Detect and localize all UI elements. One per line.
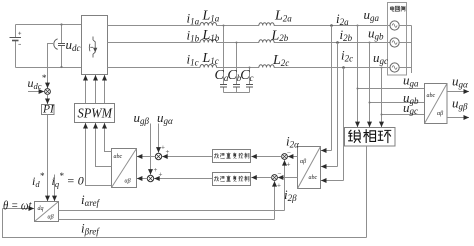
summing junction B (beta feed-forward) <box>147 175 153 181</box>
wire: phase a line <box>108 25 201 27</box>
node: cap on DC- <box>60 66 62 68</box>
svg-text:abc: abc <box>309 175 318 181</box>
svg-text:dq: dq <box>38 206 44 212</box>
controller2 text char 改 <box>214 176 219 181</box>
svg-text:−: − <box>278 170 282 178</box>
svg-text:i2α: i2α <box>286 134 299 150</box>
arrow: ugb into PLL <box>369 103 371 128</box>
wire: ugc sense vertical <box>381 68 383 115</box>
svg-text:L2b: L2b <box>271 28 289 43</box>
inductor L2c <box>259 65 274 68</box>
arrow: junction alpha to repetitive controller 1 <box>251 156 281 158</box>
arrow: i2b into transform <box>321 166 338 168</box>
wire: source c to neutral bus <box>399 67 411 69</box>
svg-text:i1a: i1a <box>187 11 200 27</box>
grid box text char 电 <box>390 6 394 11</box>
AC source phase a <box>390 21 399 30</box>
controller2 text char 制 <box>245 176 250 182</box>
arrow: signal a into SPWM <box>85 123 87 129</box>
battery V1 <box>10 38 22 41</box>
arrow: i2a into transform <box>321 150 332 152</box>
capacitor Ca <box>220 85 227 88</box>
grid box text char 网 <box>395 6 399 11</box>
SPWM block <box>75 104 115 123</box>
diagonal of alpha-beta to abc block <box>112 149 137 188</box>
wire: i2a sense vertical <box>331 26 333 151</box>
wire: SPWM gate line b <box>95 75 97 104</box>
wire: PLL theta output down <box>366 146 368 238</box>
arrow: i2c into transform <box>321 180 344 182</box>
svg-text:udc*: udc* <box>28 73 47 91</box>
svg-text:abc: abc <box>114 154 123 160</box>
wire: ugc sense horizontal to transform <box>382 114 425 116</box>
controller2 text char 复 <box>233 176 236 182</box>
capacitor Cb <box>233 85 240 88</box>
wire: source b to neutral bus <box>399 42 411 44</box>
diagonal of current transform <box>298 147 321 189</box>
svg-text:ugb: ugb <box>368 26 384 42</box>
inverter U1 box <box>82 16 108 75</box>
wire: i2c sense vertical <box>343 68 345 181</box>
arrow: signal c into SPWM <box>104 123 106 129</box>
inductor L1b <box>200 39 217 42</box>
arrow: udc into junction <box>47 82 49 88</box>
inductor L1a <box>200 22 217 25</box>
svg-text:αβ: αβ <box>125 179 131 185</box>
arrow: theta into dq block <box>3 208 35 210</box>
abc to alpha-beta transform (current) box <box>298 147 321 189</box>
svg-text:ugβ: ugβ <box>134 110 150 126</box>
wire: i2b sense vertical <box>337 43 339 167</box>
controller1 text char 控 <box>238 153 243 158</box>
capacitor Cdc <box>58 44 65 46</box>
svg-text:udc: udc <box>66 37 81 53</box>
summing junction beta <box>272 175 278 181</box>
wire: phase c line <box>108 67 201 69</box>
svg-text:θ = ωt: θ = ωt <box>3 199 32 213</box>
node: ugb sense split <box>369 102 371 104</box>
svg-text:ugc: ugc <box>373 50 388 66</box>
summing junction A (alpha feed-forward) <box>155 153 161 159</box>
controller1 text char 制 <box>245 153 250 159</box>
wire: modulation signal b to SPWM <box>96 129 112 166</box>
wire: SPWM gate line c <box>104 75 106 104</box>
svg-text:i1c: i1c <box>187 52 199 68</box>
wire+arrow: udc* reference into junction <box>28 91 44 93</box>
wire: uga sense vertical <box>357 26 359 89</box>
node: cap on DC+ <box>60 23 62 25</box>
summing junction udc (circle with X) <box>45 89 51 95</box>
svg-text:L2a: L2a <box>274 9 292 24</box>
wire: SPWM gate line a (SPWM to inverter) <box>85 75 87 104</box>
inductor L2a <box>259 23 274 26</box>
PLL text char 锁 <box>348 130 360 143</box>
svg-text:αβ: αβ <box>300 159 306 165</box>
node: uga sense split <box>357 88 359 90</box>
arrow: i2alpha into junction alpha <box>288 156 298 158</box>
wire: modulation signal a to SPWM <box>86 129 112 185</box>
wire: battery top lead <box>15 25 17 38</box>
PLL text char 相 <box>363 129 375 143</box>
arrow: junction beta to repetitive controller 2 <box>251 177 271 179</box>
node: ugc voltage tap <box>381 67 383 69</box>
wire: capacitor branch a <box>223 26 225 93</box>
wire: PI output, id* line down to dq block <box>47 115 49 202</box>
controller1 text char 复 <box>233 153 236 159</box>
node: i2c current tap <box>342 66 345 69</box>
capacitor Cc <box>246 85 253 88</box>
svg-text:L1c: L1c <box>202 51 219 66</box>
wire: neutral bus <box>411 26 413 74</box>
voltage probe arc for udc <box>54 39 58 50</box>
repetitive controller 1 box 改进重复控制 <box>213 150 251 163</box>
svg-text:uga: uga <box>403 73 419 89</box>
arrow: junction A to alpha-beta-to-abc block <box>137 156 155 158</box>
wire: DC- bottom bus <box>16 67 82 69</box>
arrow: i_alpha_ref up into junction alpha <box>284 160 286 210</box>
wire: theta bottom feedback run <box>3 209 367 238</box>
svg-text:SPWM: SPWM <box>78 107 114 122</box>
svg-text:+: + <box>154 166 158 174</box>
summing junction alpha <box>282 154 288 160</box>
inductor L1c <box>200 64 217 67</box>
wire: i_beta_ref line <box>59 219 275 221</box>
arrow: ugc into PLL <box>381 115 383 128</box>
svg-text:i2c: i2c <box>341 48 353 64</box>
wire: uga sense horizontal to transform <box>358 88 425 90</box>
controller1 text char 改 <box>214 153 219 158</box>
svg-text:iq* = 0: iq* = 0 <box>52 171 84 189</box>
wire: capacitor branch c <box>249 68 251 93</box>
svg-text:PI: PI <box>42 104 55 116</box>
wire: capacitor branch b <box>236 43 238 93</box>
svg-text:i2β: i2β <box>284 187 297 203</box>
arrow: uga into PLL <box>357 89 359 128</box>
node: uga voltage tap <box>357 25 359 27</box>
IGBT symbol inside inverter <box>89 37 96 58</box>
arrow: signal b into SPWM <box>95 123 97 129</box>
svg-text:+: + <box>166 148 170 156</box>
svg-text:L2c: L2c <box>272 53 289 68</box>
wire: phase b line <box>108 42 201 44</box>
svg-text:i2a: i2a <box>336 11 349 27</box>
grid box text char 侧 <box>401 6 405 11</box>
svg-text:ugβ: ugβ <box>452 96 468 112</box>
diagonal of dq block <box>35 202 59 222</box>
battery plus sign <box>18 32 21 35</box>
arrow: junction to PI <box>47 94 49 104</box>
svg-text:i2b: i2b <box>340 27 353 43</box>
controller2 text char 重 <box>226 176 230 182</box>
node: cap branch a tap <box>223 25 225 27</box>
wire: ugb sense horizontal to transform <box>370 102 425 104</box>
controller2 text char 进 <box>220 176 224 181</box>
wire: source a to neutral bus <box>399 25 411 27</box>
svg-text:i1b: i1b <box>187 28 200 44</box>
controller1 text char 进 <box>220 153 224 158</box>
svg-text:iβref: iβref <box>81 221 100 237</box>
repetitive controller 2 box 改进重复控制 <box>213 173 251 186</box>
node: i2a current tap <box>330 24 333 27</box>
AC source phase c <box>390 63 399 72</box>
svg-text:αβ: αβ <box>48 215 54 221</box>
svg-text:+: + <box>287 161 291 169</box>
wire: DC+ top bus <box>16 24 82 26</box>
wire: battery bottom lead <box>15 41 17 68</box>
dq to alpha-beta block <box>35 202 59 222</box>
arrow: u_galpha output <box>447 91 469 93</box>
wire: DC-link capacitor branch <box>61 25 63 68</box>
svg-text:iαref: iαref <box>81 192 101 208</box>
arrow: u_gbeta down into junction B <box>150 124 152 175</box>
node: ugb voltage tap <box>369 42 371 44</box>
arrow: i2beta into junction beta <box>278 177 298 179</box>
arrow: u_gbeta output <box>447 117 469 119</box>
arrow: i_beta_ref up into junction beta <box>274 181 276 219</box>
svg-text:αβ: αβ <box>437 111 443 117</box>
svg-text:uga: uga <box>364 7 380 23</box>
arrow: junction B to alpha-beta-to-abc block <box>137 178 147 180</box>
node: i2b current tap <box>336 41 339 44</box>
node: cap branch c tap <box>249 67 251 69</box>
svg-text:+: + <box>277 182 281 190</box>
PLL box 锁相环 <box>345 128 396 147</box>
arrow: controller 1 to junction A <box>162 156 212 158</box>
inductor L2b <box>259 40 274 43</box>
svg-text:ugα: ugα <box>452 74 468 90</box>
node: ugc sense split <box>381 114 383 116</box>
arrow: u_galpha down into junction A <box>158 124 160 153</box>
svg-text:L1b: L1b <box>202 28 220 43</box>
svg-text:id*: id* <box>32 171 45 189</box>
abc to alpha-beta transform (grid voltage) box <box>425 84 448 124</box>
arrow: controller 2 to junction B <box>154 178 212 180</box>
grid side box 电网侧 <box>388 3 407 76</box>
svg-text:ugα: ugα <box>157 110 173 126</box>
AC source phase b <box>390 38 399 47</box>
battery minus sign <box>18 43 21 45</box>
svg-text:Cc: Cc <box>240 68 253 83</box>
alpha-beta to abc block (before SPWM) <box>112 149 137 188</box>
PI block <box>42 105 55 115</box>
wire: modulation signal c to SPWM <box>105 129 112 151</box>
wire: i_alpha_ref line <box>59 210 285 212</box>
wire: udc sense tap <box>48 44 54 85</box>
wire: ugb sense vertical <box>369 43 371 103</box>
diagonal of voltage transform <box>425 84 448 124</box>
wire: capacitor common bus <box>224 92 250 94</box>
svg-text:+: + <box>161 144 165 152</box>
svg-text:abc: abc <box>427 93 436 99</box>
node: cap branch b tap <box>236 42 238 44</box>
svg-text:−: − <box>287 149 291 157</box>
svg-text:L1a: L1a <box>202 9 220 24</box>
PLL text char 环 <box>378 130 392 143</box>
svg-text:+: + <box>159 171 163 179</box>
controller1 text char 重 <box>226 153 230 159</box>
controller2 text char 控 <box>238 176 243 181</box>
wire: iq*=0 line down to dq block <box>54 175 56 202</box>
